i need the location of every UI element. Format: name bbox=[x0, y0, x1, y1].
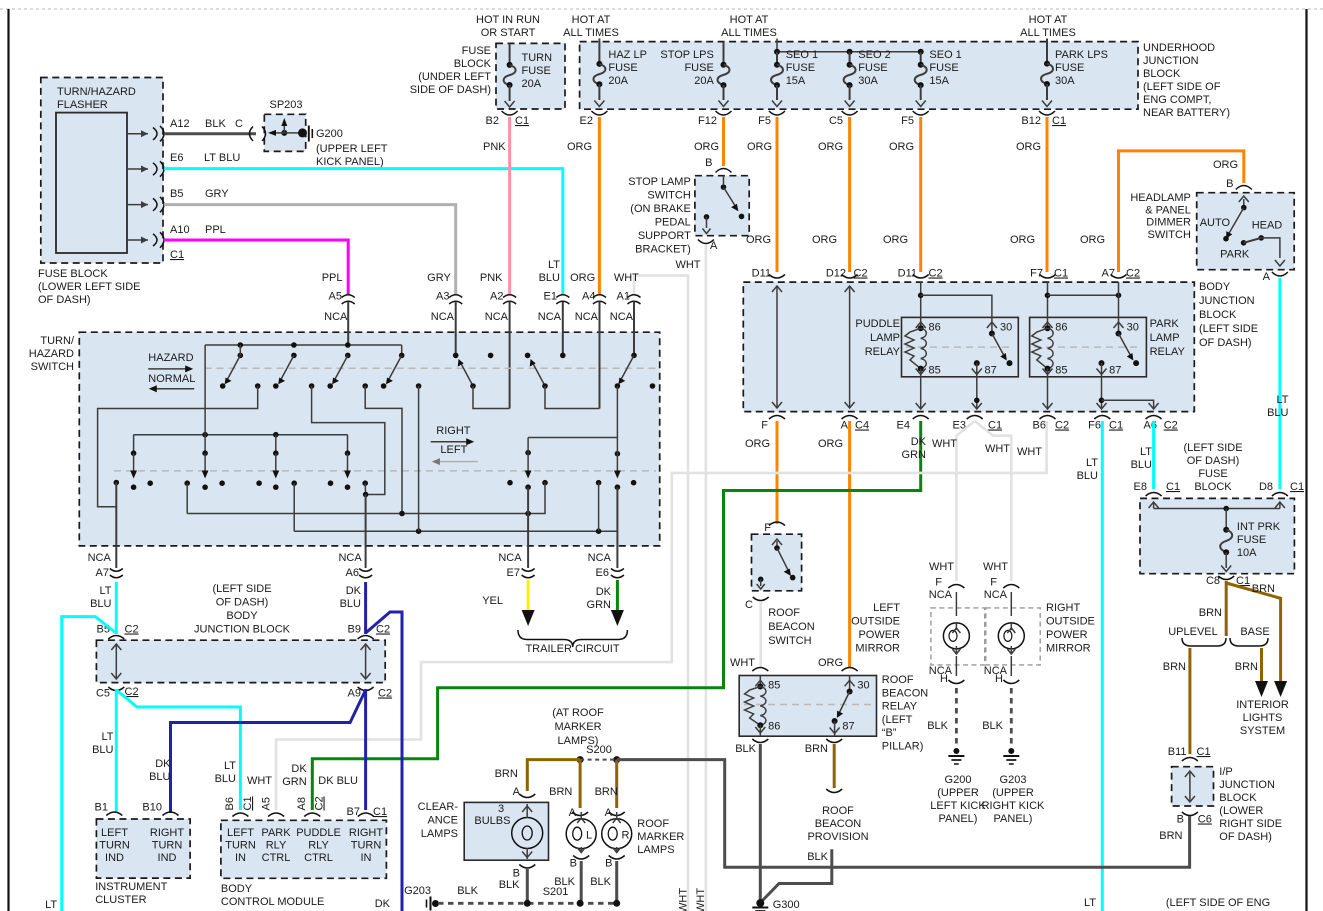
svg-text:LT: LT bbox=[548, 259, 560, 271]
svg-text:C2: C2 bbox=[854, 268, 868, 280]
svg-text:ORG: ORG bbox=[747, 141, 772, 153]
svg-text:A3: A3 bbox=[436, 291, 449, 303]
svg-text:ORG: ORG bbox=[1213, 159, 1238, 171]
svg-text:BLK: BLK bbox=[457, 885, 478, 897]
svg-text:TURN/: TURN/ bbox=[40, 335, 75, 347]
svg-text:E1: E1 bbox=[544, 291, 557, 303]
switch top pin A4 bbox=[570, 272, 606, 409]
svg-text:INT PRK: INT PRK bbox=[1237, 521, 1281, 533]
wire LT BLU C5 branch to BCM B6 bbox=[116, 690, 240, 810]
svg-text:BRN: BRN bbox=[1163, 661, 1186, 673]
svg-text:F5: F5 bbox=[758, 115, 771, 127]
svg-text:15A: 15A bbox=[929, 75, 949, 87]
ground G203 (mirror) bbox=[982, 748, 1045, 825]
wire LT BLU F6 down page bbox=[1101, 421, 1104, 911]
svg-text:ORG: ORG bbox=[812, 234, 837, 246]
svg-text:15A: 15A bbox=[786, 75, 806, 87]
svg-text:BLOCK: BLOCK bbox=[1219, 792, 1257, 804]
svg-text:BULBS: BULBS bbox=[474, 815, 510, 827]
wire ORG F5 to D11 bbox=[776, 117, 779, 272]
svg-text:WHT: WHT bbox=[985, 443, 1010, 455]
svg-text:C1: C1 bbox=[1054, 268, 1068, 280]
svg-text:FUSE: FUSE bbox=[1198, 468, 1227, 480]
svg-text:JUNCTION BLOCK: JUNCTION BLOCK bbox=[194, 624, 291, 636]
switch top pin A1 bbox=[610, 272, 641, 355]
svg-text:ORG: ORG bbox=[746, 234, 771, 246]
svg-text:OUTSIDE: OUTSIDE bbox=[851, 616, 900, 628]
svg-text:OF DASH): OF DASH) bbox=[38, 294, 91, 306]
svg-text:DK: DK bbox=[155, 758, 171, 770]
svg-text:DK BLU: DK BLU bbox=[318, 775, 358, 787]
svg-text:RIGHT SIDE: RIGHT SIDE bbox=[1219, 818, 1282, 830]
body junction block (left side of dash) bbox=[743, 281, 1258, 412]
stop lamp switch bbox=[628, 157, 749, 271]
svg-text:BLU: BLU bbox=[1077, 470, 1098, 482]
svg-text:WHT: WHT bbox=[929, 561, 954, 573]
wire BRN C8 split bbox=[1199, 581, 1287, 697]
svg-text:S201: S201 bbox=[543, 886, 569, 898]
svg-text:ORG: ORG bbox=[567, 141, 592, 153]
svg-text:B: B bbox=[513, 868, 520, 880]
wire LT BLU C5 to instrument cluster B1 bbox=[115, 689, 118, 813]
svg-text:JUNCTION: JUNCTION bbox=[1199, 295, 1255, 307]
svg-text:I/P: I/P bbox=[1219, 766, 1232, 778]
fuse INT PRK FUSE 10A bbox=[1206, 509, 1281, 588]
wire BRN uplevel to I/P B11 bbox=[1188, 648, 1191, 754]
SEO fuse top bus bbox=[776, 39, 778, 52]
svg-text:SIDE OF DASH): SIDE OF DASH) bbox=[410, 84, 491, 96]
BJB bottom pin F bbox=[769, 416, 785, 420]
svg-text:ALL TIMES: ALL TIMES bbox=[721, 27, 777, 39]
svg-text:IN: IN bbox=[235, 852, 246, 864]
svg-text:GRN: GRN bbox=[902, 449, 927, 461]
svg-text:20A: 20A bbox=[608, 75, 628, 87]
svg-text:BLK: BLK bbox=[927, 720, 948, 732]
svg-text:NCA: NCA bbox=[485, 311, 509, 323]
body control module bbox=[221, 796, 387, 908]
svg-text:10A: 10A bbox=[1237, 547, 1257, 559]
uplevel/base braces bbox=[1168, 626, 1269, 646]
svg-text:B6: B6 bbox=[1033, 420, 1046, 432]
wire LT BLU dimmer A to D8 bbox=[1278, 278, 1281, 489]
wire DK BLU A9 branch to cluster B10 bbox=[171, 690, 366, 813]
BJB internal wire park 87 to F6 and A6 bbox=[1097, 377, 1159, 409]
svg-text:CONTROL MODULE: CONTROL MODULE bbox=[221, 896, 325, 908]
flasher pin A12 bbox=[127, 118, 226, 141]
fuse SEO 2 FUSE 30A bbox=[829, 49, 891, 127]
svg-text:E6: E6 bbox=[596, 567, 609, 579]
svg-text:LAMPS: LAMPS bbox=[637, 844, 674, 856]
wire WHT switch A1 loop down page bbox=[634, 276, 688, 911]
svg-text:B: B bbox=[570, 858, 577, 870]
svg-text:C1: C1 bbox=[1290, 481, 1304, 493]
svg-text:A2: A2 bbox=[490, 291, 503, 303]
svg-text:CTRL: CTRL bbox=[304, 852, 333, 864]
switch lower dashed action line bbox=[114, 470, 656, 472]
svg-text:C1: C1 bbox=[1109, 420, 1123, 432]
svg-text:86: 86 bbox=[768, 721, 780, 733]
svg-text:BLU: BLU bbox=[90, 598, 111, 610]
svg-text:D11: D11 bbox=[898, 268, 917, 280]
wire A7 riser bbox=[115, 483, 117, 546]
BJB top pin D12 bbox=[842, 275, 858, 279]
wire leg1 right contact to A7 riser bbox=[98, 386, 258, 507]
fuse HAZ LP FUSE 20A bbox=[580, 39, 647, 128]
BJB bottom pin E3 bbox=[967, 416, 983, 420]
svg-text:CLUSTER: CLUSTER bbox=[95, 894, 146, 906]
svg-text:CTRL: CTRL bbox=[262, 852, 291, 864]
svg-text:BLU: BLU bbox=[215, 773, 236, 785]
svg-text:C1: C1 bbox=[1166, 481, 1180, 493]
BJB internal wire puddle 87 to E3 bbox=[972, 377, 982, 409]
svg-text:JUNCTION: JUNCTION bbox=[1143, 55, 1199, 67]
svg-text:F12: F12 bbox=[698, 115, 717, 127]
svg-text:SWITCH: SWITCH bbox=[31, 361, 74, 373]
svg-text:BLOCK: BLOCK bbox=[1194, 481, 1232, 493]
svg-text:HEAD: HEAD bbox=[1252, 220, 1283, 232]
BJB internal wire D11b to puddle 86 and 30 bbox=[918, 282, 992, 317]
svg-text:PARK: PARK bbox=[1150, 318, 1180, 330]
BJB internal wire park 85 to B6 bbox=[1047, 377, 1049, 408]
wire WHT E3 to power mirrors bbox=[932, 421, 1011, 581]
svg-text:BRN: BRN bbox=[1199, 607, 1222, 619]
svg-text:KICK PANEL): KICK PANEL) bbox=[316, 156, 384, 168]
svg-text:BLU: BLU bbox=[340, 598, 361, 610]
clearance lamps bbox=[418, 786, 549, 880]
hazard/normal legend bbox=[148, 352, 195, 392]
svg-text:C2: C2 bbox=[314, 796, 326, 810]
ground G300 bbox=[752, 899, 799, 911]
svg-text:BEACON: BEACON bbox=[768, 621, 815, 633]
switch top pin A2 bbox=[480, 272, 516, 409]
svg-text:SEO 1: SEO 1 bbox=[929, 49, 961, 61]
wire pathB leg2 flank to A6 riser bbox=[312, 386, 385, 495]
svg-text:SEO 2: SEO 2 bbox=[858, 49, 890, 61]
wire BLK right mirror to G203 bbox=[982, 688, 1011, 748]
wire DK GRN trailer right bbox=[616, 580, 619, 612]
svg-text:FUSE: FUSE bbox=[684, 62, 713, 74]
svg-text:NCA: NCA bbox=[431, 311, 455, 323]
svg-text:H: H bbox=[940, 673, 948, 685]
wire LT BLU flasher E6 to switch E1 bbox=[164, 169, 563, 294]
svg-text:A1: A1 bbox=[617, 291, 630, 303]
svg-text:TURN: TURN bbox=[522, 52, 553, 64]
svg-text:LT: LT bbox=[1276, 394, 1288, 406]
svg-text:RELAY: RELAY bbox=[1150, 346, 1186, 358]
lower contact chains bbox=[130, 450, 621, 490]
svg-text:F7: F7 bbox=[1030, 268, 1043, 280]
svg-text:LT: LT bbox=[224, 760, 236, 772]
svg-text:NCA: NCA bbox=[498, 552, 522, 564]
svg-text:ALL TIMES: ALL TIMES bbox=[563, 27, 619, 39]
wire ORG B12 to F7 bbox=[1046, 117, 1049, 272]
svg-text:PROVISION: PROVISION bbox=[807, 831, 868, 843]
svg-text:DK: DK bbox=[596, 586, 612, 598]
svg-text:C1: C1 bbox=[242, 796, 254, 810]
svg-text:& PANEL: & PANEL bbox=[1145, 204, 1191, 216]
svg-text:INTERIOR: INTERIOR bbox=[1236, 699, 1289, 711]
svg-text:WHT: WHT bbox=[678, 888, 690, 911]
svg-text:TRAILER CIRCUIT: TRAILER CIRCUIT bbox=[525, 643, 619, 655]
svg-text:TURN/HAZARD: TURN/HAZARD bbox=[57, 86, 136, 98]
svg-text:B: B bbox=[705, 157, 712, 169]
svg-text:BLOCK: BLOCK bbox=[1143, 68, 1181, 80]
wire WHT roof beacon switch C to relay 85 bbox=[759, 602, 762, 668]
puddle lamp relay bbox=[855, 317, 1018, 376]
svg-text:(LEFT SIDE OF ENG: (LEFT SIDE OF ENG bbox=[1166, 897, 1270, 909]
svg-text:LT: LT bbox=[1140, 446, 1152, 458]
svg-text:TURN: TURN bbox=[99, 840, 130, 852]
svg-text:ROOF: ROOF bbox=[822, 805, 854, 817]
svg-text:(LEFT SIDE: (LEFT SIDE bbox=[1183, 442, 1242, 454]
BJB internal wire puddle 85 to E4 bbox=[920, 377, 922, 408]
svg-text:LEFT: LEFT bbox=[873, 602, 900, 614]
svg-text:NCA: NCA bbox=[610, 311, 634, 323]
svg-text:G200: G200 bbox=[945, 774, 972, 786]
svg-text:IND: IND bbox=[105, 852, 124, 864]
turn/hazard flasher block (fuse block lower left side of dash) bbox=[38, 78, 163, 307]
svg-text:85: 85 bbox=[1055, 365, 1067, 377]
svg-text:A6: A6 bbox=[346, 567, 359, 579]
svg-text:85: 85 bbox=[768, 680, 780, 692]
svg-text:BODY: BODY bbox=[221, 883, 253, 895]
svg-text:C2: C2 bbox=[1126, 268, 1140, 280]
svg-text:POWER: POWER bbox=[1046, 629, 1088, 641]
flasher pin A10 bbox=[127, 224, 226, 261]
svg-text:F: F bbox=[990, 577, 997, 589]
svg-text:JUNCTION: JUNCTION bbox=[1219, 779, 1275, 791]
svg-text:PARK: PARK bbox=[261, 827, 291, 839]
svg-text:LAMP: LAMP bbox=[870, 332, 900, 344]
svg-text:HAZARD: HAZARD bbox=[148, 352, 193, 364]
svg-text:BODY: BODY bbox=[1199, 281, 1231, 293]
svg-text:BLU: BLU bbox=[539, 272, 560, 284]
svg-text:OUTSIDE: OUTSIDE bbox=[1046, 616, 1095, 628]
svg-text:E7: E7 bbox=[507, 567, 520, 579]
svg-text:(LOWER LEFT SIDE: (LOWER LEFT SIDE bbox=[38, 281, 140, 293]
svg-text:B: B bbox=[1226, 178, 1233, 190]
svg-text:BRN: BRN bbox=[805, 743, 828, 755]
wire ORG F5 to D11 (second) bbox=[919, 117, 922, 272]
switch top pin E1 bbox=[538, 259, 570, 355]
svg-text:ORG: ORG bbox=[1016, 141, 1041, 153]
svg-text:BLU: BLU bbox=[1267, 407, 1288, 419]
svg-text:HOT IN RUN: HOT IN RUN bbox=[476, 14, 540, 26]
svg-text:C1: C1 bbox=[515, 115, 529, 127]
svg-text:ANCE: ANCE bbox=[427, 815, 458, 827]
wire BLK provision stub to G300 bbox=[762, 849, 832, 901]
ground G200 symbol at SP203 bbox=[309, 126, 388, 169]
svg-text:BLU: BLU bbox=[92, 744, 113, 756]
lower flank dots bbox=[114, 480, 637, 486]
right/left legend bbox=[431, 425, 478, 465]
svg-text:(AT ROOF: (AT ROOF bbox=[552, 707, 604, 719]
svg-text:(UNDER LEFT: (UNDER LEFT bbox=[418, 71, 491, 83]
svg-text:RIGHT KICK: RIGHT KICK bbox=[982, 800, 1045, 812]
wire BLK left marker B to bus bbox=[580, 861, 583, 903]
svg-text:(UPPER LEFT: (UPPER LEFT bbox=[316, 143, 388, 155]
wire DK GRN E4 to BCM A8 bbox=[312, 421, 920, 810]
svg-text:RELAY: RELAY bbox=[882, 701, 918, 713]
svg-text:ROOF: ROOF bbox=[637, 818, 669, 830]
svg-text:C1: C1 bbox=[170, 249, 184, 261]
svg-text:BRN: BRN bbox=[495, 768, 518, 780]
svg-text:G203: G203 bbox=[1000, 774, 1027, 786]
wire LT BLU B5 branch down left edge bbox=[62, 617, 117, 911]
svg-text:BRN: BRN bbox=[1159, 830, 1182, 842]
svg-text:C2: C2 bbox=[1055, 420, 1069, 432]
svg-text:A9: A9 bbox=[348, 688, 361, 700]
svg-text:LT: LT bbox=[101, 731, 113, 743]
svg-text:NCA: NCA bbox=[588, 552, 612, 564]
svg-text:LT: LT bbox=[1086, 457, 1098, 469]
svg-text:ROOF: ROOF bbox=[768, 607, 800, 619]
wire LT BLU A6 to fuse block E8 bbox=[1152, 421, 1155, 489]
svg-text:ALL TIMES: ALL TIMES bbox=[1020, 27, 1076, 39]
svg-text:C2: C2 bbox=[125, 686, 139, 698]
svg-text:G200: G200 bbox=[316, 128, 343, 140]
svg-text:B11: B11 bbox=[1168, 746, 1187, 758]
wire YEL trailer left bbox=[527, 580, 530, 612]
svg-text:(LEFT SIDE: (LEFT SIDE bbox=[1199, 323, 1258, 335]
svg-text:NCA: NCA bbox=[984, 589, 1008, 601]
svg-text:WHT: WHT bbox=[730, 657, 755, 669]
svg-text:30A: 30A bbox=[858, 75, 878, 87]
svg-text:STOP LPS: STOP LPS bbox=[660, 49, 713, 61]
svg-text:RIGHT: RIGHT bbox=[349, 827, 384, 839]
svg-text:PARK LPS: PARK LPS bbox=[1055, 49, 1108, 61]
svg-text:BRN: BRN bbox=[1235, 661, 1258, 673]
svg-text:F: F bbox=[935, 577, 942, 589]
wire pathA leg3 flank to mid line bbox=[365, 386, 402, 514]
wire PPL flasher A10 to switch A5 bbox=[164, 240, 348, 294]
svg-text:A10: A10 bbox=[170, 224, 190, 236]
svg-text:OF DASH): OF DASH) bbox=[1219, 831, 1272, 843]
wire DK BLU A9 to BCM B7 bbox=[364, 689, 367, 810]
svg-text:FUSE: FUSE bbox=[786, 62, 815, 74]
svg-text:BLK: BLK bbox=[590, 876, 611, 888]
svg-text:S200: S200 bbox=[586, 744, 612, 756]
switch top bus bbox=[205, 344, 402, 346]
wire PNK B2 to switch A2 bbox=[508, 117, 511, 294]
svg-text:B1: B1 bbox=[95, 802, 108, 814]
svg-text:DK: DK bbox=[291, 763, 307, 775]
fuse PARK LPS FUSE 30A bbox=[1021, 39, 1108, 128]
svg-text:NCA: NCA bbox=[929, 589, 953, 601]
svg-text:BODY: BODY bbox=[226, 610, 258, 622]
svg-text:LAMP: LAMP bbox=[1150, 332, 1180, 344]
svg-text:ORG: ORG bbox=[745, 438, 770, 450]
page left border bbox=[7, 9, 9, 911]
svg-text:E4: E4 bbox=[897, 420, 910, 432]
wire ORG A to roof beacon relay 30 bbox=[848, 421, 851, 668]
wire BLK A12 to SP203 C bbox=[164, 132, 256, 135]
svg-text:B9: B9 bbox=[348, 624, 361, 636]
svg-text:BLU: BLU bbox=[149, 771, 170, 783]
wire bus2 left bbox=[134, 434, 348, 436]
svg-text:BRN: BRN bbox=[549, 786, 572, 798]
fuse SEO 1 FUSE 15A (second) bbox=[901, 49, 962, 127]
roof beacon relay bbox=[739, 668, 928, 753]
svg-text:SEO 1: SEO 1 bbox=[786, 49, 818, 61]
svg-text:B: B bbox=[605, 858, 612, 870]
wire E6 riser bbox=[616, 487, 618, 546]
wire GRY flasher B5 to switch A3 bbox=[164, 205, 456, 294]
svg-text:FLASHER: FLASHER bbox=[57, 99, 108, 111]
svg-text:30: 30 bbox=[1000, 322, 1012, 334]
roof beacon switch bbox=[745, 522, 815, 647]
BJB bottom pin F6 bbox=[1094, 416, 1110, 420]
svg-text:INSTRUMENT: INSTRUMENT bbox=[95, 881, 167, 893]
svg-text:C1: C1 bbox=[1052, 115, 1066, 127]
flasher pin B5 bbox=[127, 188, 229, 212]
wire ORG F to roof beacon switch F bbox=[776, 421, 779, 524]
wire LT BLU A7 to B5 bbox=[115, 582, 118, 634]
svg-text:C1: C1 bbox=[373, 806, 387, 818]
wire A6 riser bbox=[365, 495, 367, 546]
svg-text:A5: A5 bbox=[329, 291, 342, 303]
svg-text:FUSE: FUSE bbox=[1055, 62, 1084, 74]
svg-text:IN: IN bbox=[361, 852, 372, 864]
I/P junction block bbox=[1159, 746, 1282, 843]
svg-text:HOT AT: HOT AT bbox=[572, 14, 611, 26]
page right border bbox=[1305, 9, 1307, 911]
svg-text:ORG: ORG bbox=[818, 438, 843, 450]
svg-text:BLK: BLK bbox=[807, 851, 828, 863]
svg-text:(LEFT SIDE OF: (LEFT SIDE OF bbox=[1143, 81, 1221, 93]
svg-text:WHT: WHT bbox=[932, 438, 957, 450]
BJB top pin D11 bbox=[769, 275, 785, 279]
ground G200 (mirror) bbox=[930, 748, 986, 825]
fuse TURN FUSE 20A bbox=[486, 43, 530, 127]
svg-text:RIGHT: RIGHT bbox=[436, 425, 471, 437]
svg-text:WHT: WHT bbox=[983, 561, 1008, 573]
wire mid horizontal bbox=[187, 483, 545, 514]
svg-text:A: A bbox=[710, 240, 718, 252]
svg-text:DK: DK bbox=[375, 898, 391, 910]
svg-text:PPL: PPL bbox=[205, 224, 226, 236]
svg-text:SWITCH: SWITCH bbox=[647, 190, 690, 202]
svg-text:SYSTEM: SYSTEM bbox=[1240, 725, 1285, 737]
svg-text:GRN: GRN bbox=[587, 599, 612, 611]
svg-text:LEFT: LEFT bbox=[440, 444, 467, 456]
svg-text:PPL: PPL bbox=[322, 272, 343, 284]
wire WHT stop lamp A down page bbox=[705, 245, 708, 911]
svg-text:“B”: “B” bbox=[882, 727, 897, 739]
switch bottom pin E7 bbox=[482, 546, 534, 607]
svg-text:C1: C1 bbox=[988, 420, 1002, 432]
wire bus2 right bbox=[528, 437, 617, 439]
svg-text:RELAY: RELAY bbox=[865, 346, 901, 358]
BJB top pin D11 (second) bbox=[913, 275, 929, 279]
svg-text:(ON BRAKE: (ON BRAKE bbox=[630, 203, 691, 215]
svg-text:C: C bbox=[235, 118, 243, 130]
svg-text:NCA: NCA bbox=[324, 311, 348, 323]
svg-text:3: 3 bbox=[498, 803, 504, 815]
svg-text:LEFT KICK: LEFT KICK bbox=[930, 800, 986, 812]
svg-text:87: 87 bbox=[1109, 365, 1121, 377]
svg-text:PNK: PNK bbox=[483, 141, 506, 153]
svg-text:D11: D11 bbox=[752, 268, 771, 280]
wire WHT B6 to BCM A5 bbox=[276, 421, 1047, 810]
svg-text:C8: C8 bbox=[1206, 575, 1220, 587]
svg-text:A: A bbox=[513, 786, 521, 798]
svg-text:(LEFT: (LEFT bbox=[882, 714, 913, 726]
svg-text:ORG: ORG bbox=[818, 141, 843, 153]
svg-text:GRN: GRN bbox=[282, 776, 307, 788]
svg-text:NORMAL: NORMAL bbox=[148, 373, 195, 385]
svg-text:ENG COMPT,: ENG COMPT, bbox=[1143, 94, 1211, 106]
